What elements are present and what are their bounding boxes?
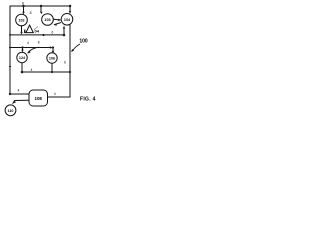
- svg-text:8: 8: [38, 40, 40, 44]
- wire node102 bottom: [21, 26, 23, 33]
- wire curved arrow into node124: [28, 47, 39, 53]
- svg-text:8: 8: [30, 11, 32, 15]
- svg-text:108: 108: [35, 96, 43, 101]
- wire left rail: [9, 6, 11, 94]
- svg-text:103: 103: [44, 18, 50, 22]
- wire right rail upper: [69, 6, 71, 13]
- arrowhead up into node104 bottom: [63, 26, 65, 29]
- junction dot rail47 left: [9, 47, 11, 49]
- wire arrow drop to node103: [40, 6, 42, 12]
- wire rail y72: [22, 71, 70, 73]
- wire drop into node 106: [52, 48, 54, 54]
- leader for label 100: [73, 44, 80, 50]
- arrowhead into node102: [22, 12, 24, 15]
- svg-text:8: 8: [22, 2, 24, 6]
- wire rail y47: [10, 47, 51, 49]
- wire node124 bottom: [21, 63, 23, 73]
- tick left of triangle: [24, 29, 26, 33]
- junction dot mid rail at left rail: [9, 34, 11, 36]
- arrowhead right end of rail47: [50, 46, 53, 48]
- arrowhead of 100 leader: [71, 49, 74, 52]
- junction dot top at arrow103: [40, 5, 43, 8]
- svg-text:4: 4: [54, 92, 56, 96]
- node 124: [17, 52, 27, 62]
- node 103: [42, 14, 54, 26]
- junction dot left rail bottom corner: [9, 93, 11, 95]
- wire top rail: [10, 5, 70, 7]
- junction dot rail72 left corner: [21, 71, 24, 74]
- arrowhead into node104 top: [69, 11, 71, 14]
- svg-text:124: 124: [19, 56, 26, 60]
- arrowhead curved into node124 top-right: [28, 51, 31, 54]
- arrowhead node102 to mid rail: [20, 32, 22, 35]
- junction dot top right corner: [69, 5, 72, 8]
- svg-text:4: 4: [18, 88, 20, 92]
- svg-text:FIG. 4: FIG. 4: [80, 97, 96, 103]
- svg-text:104: 104: [64, 18, 71, 22]
- svg-text:6: 6: [64, 61, 66, 65]
- wire node106 bottom: [51, 63, 53, 72]
- wire arrow drop to node124: [22, 48, 24, 51]
- wire bottom-left to box: [10, 93, 29, 95]
- svg-text:100: 100: [79, 39, 88, 45]
- node 106: [47, 53, 57, 63]
- wire to node110: [15, 99, 30, 101]
- wire arrow drop to node102: [23, 6, 25, 13]
- svg-text:4: 4: [31, 68, 33, 72]
- svg-text:102: 102: [18, 19, 24, 23]
- node 102: [16, 14, 28, 26]
- node 110: [5, 105, 16, 116]
- junction dot top at arrow102: [22, 5, 25, 8]
- svg-text:110: 110: [8, 109, 14, 113]
- arrowhead on left rail: [9, 66, 11, 69]
- triangle symbol: [26, 25, 33, 32]
- arrowhead into node124: [21, 50, 23, 53]
- wire mid rail: [10, 34, 64, 36]
- arrowhead into node103: [40, 12, 43, 15]
- wire right rail lower: [69, 25, 71, 97]
- svg-text:106: 106: [49, 57, 55, 61]
- arrowhead into node110: [12, 100, 16, 104]
- svg-text:4: 4: [27, 41, 29, 45]
- junction dot rail72 node106: [51, 71, 53, 73]
- wire arrow node103 to node104 upper: [54, 18, 60, 21]
- junction dot rail47 corner: [52, 46, 54, 48]
- wire bottom-right to box: [48, 96, 71, 98]
- arrowhead upper into node104: [58, 19, 61, 22]
- leader near triangle: [34, 26, 38, 30]
- junction dot rail47 at node124: [21, 46, 23, 48]
- junction dot rail72 right: [69, 71, 71, 73]
- node 104: [61, 13, 73, 25]
- svg-text:6: 6: [52, 31, 54, 35]
- junction dot mid rail corner: [63, 34, 66, 37]
- junction dot mid rail below node103: [42, 34, 44, 36]
- wire arrow node104 to node103 lower: [54, 23, 60, 25]
- box 108: [29, 90, 48, 106]
- wire vertical into node 104: [63, 27, 65, 35]
- arrowhead into node106: [52, 51, 54, 54]
- arrowhead lower into node103: [54, 23, 57, 26]
